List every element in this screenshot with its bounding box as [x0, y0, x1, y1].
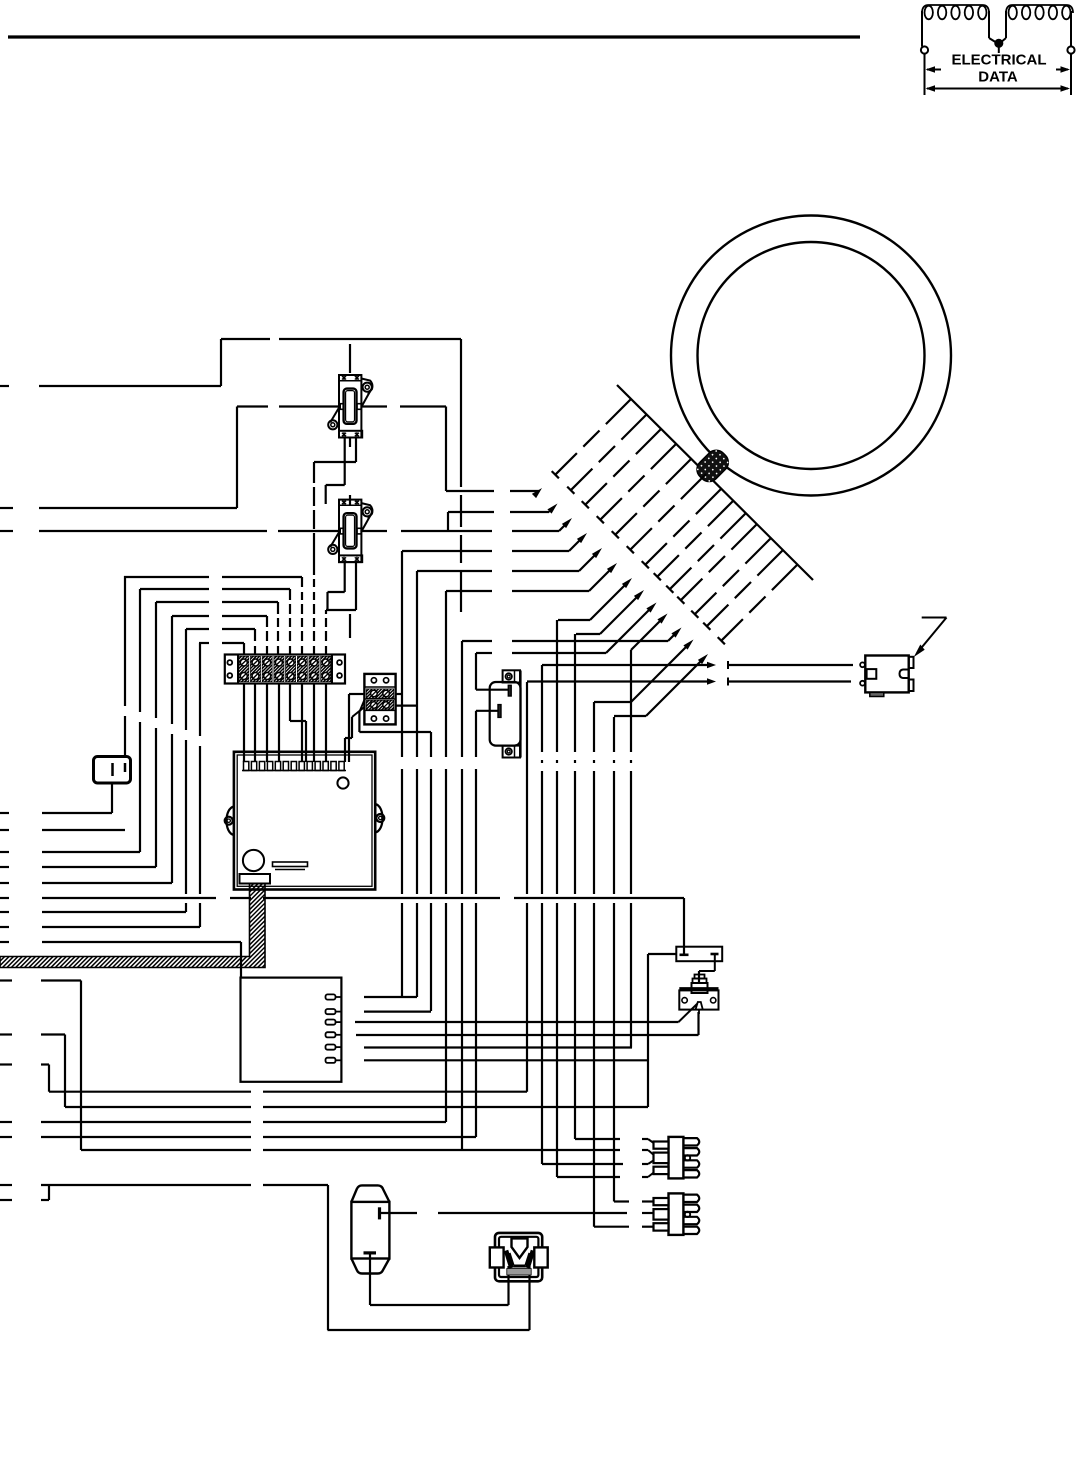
svg-text:DATA: DATA — [978, 69, 1018, 86]
svg-text:ELECTRICAL: ELECTRICAL — [952, 52, 1047, 69]
